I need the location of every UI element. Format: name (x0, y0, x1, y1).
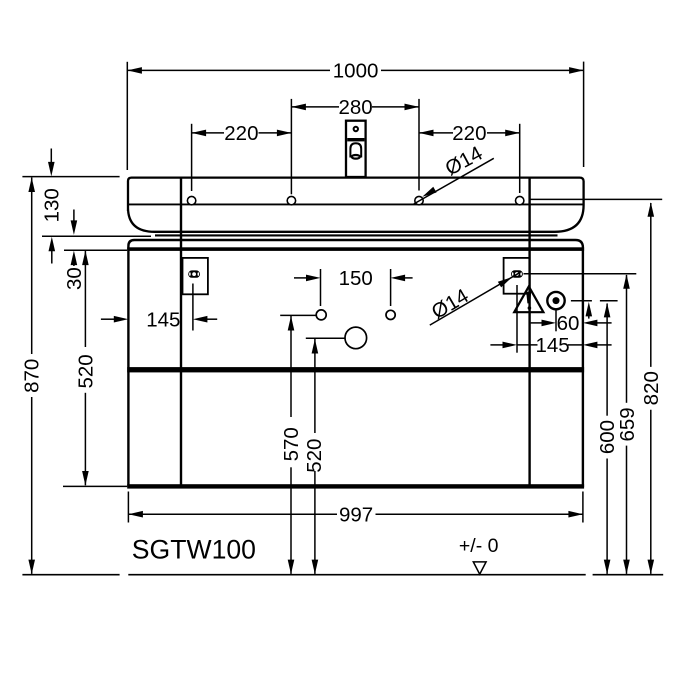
dim 870 arrowheads (28, 178, 35, 193)
dim 220 right extension line (519, 124, 521, 193)
svg-text:+/- 0: +/- 0 (459, 535, 499, 557)
dim 60 arrowheads (542, 320, 557, 327)
svg-text:997: 997 (339, 504, 373, 527)
dim 150 extension line right (390, 269, 392, 306)
basin top extension line left (22, 176, 119, 178)
dim 145 right arrowheads (503, 342, 518, 349)
dim 30 bottom arrowhead (71, 251, 78, 266)
svg-text:820: 820 (640, 371, 663, 405)
dim 130 top arrowhead (48, 162, 55, 177)
svg-text:145: 145 (535, 334, 569, 357)
faucet body (346, 121, 366, 177)
dim 220 left arrows (192, 130, 207, 137)
washbasin bottom thick rim line (155, 234, 558, 236)
warning triangle exclamation bar (526, 292, 531, 304)
dim 1000 line (127, 69, 330, 71)
right hinge plate (504, 258, 530, 294)
dim 820 line (650, 203, 652, 367)
dim 570 arrowheads (288, 316, 295, 331)
cabinet bottom thick band (127, 484, 584, 488)
dim 520 center arrowheads (312, 339, 319, 354)
dim 997 arrowheads (128, 511, 143, 518)
faucet spout outlet ellipse (352, 155, 360, 159)
dim 280 line (291, 106, 339, 108)
basin hole 2 (287, 196, 295, 204)
cabinet bottom extension line left (63, 485, 127, 487)
dim 870 line (31, 178, 33, 355)
cabinet right inner panel line (528, 178, 530, 487)
faucet spout arch (350, 143, 361, 157)
svg-text:60: 60 (557, 312, 580, 335)
svg-text:520: 520 (303, 439, 326, 473)
dim 30 top arrow stem (73, 210, 75, 223)
drawer divider thick band (127, 367, 584, 372)
dim 997 extension line right (582, 492, 584, 523)
dim 60 tails (531, 322, 542, 324)
dim 220 right arrows (419, 130, 434, 137)
dim 820 arrowheads (648, 202, 655, 217)
faucet top dot (354, 127, 358, 131)
basin hole 4 (516, 196, 524, 204)
dim 600 line (606, 304, 608, 416)
dim 570 line (290, 316, 292, 417)
cabinet left inner panel line (180, 178, 182, 487)
right hinge slot symbol (511, 270, 523, 277)
handle extension line segments (571, 300, 592, 302)
cabinet top extension line left (64, 249, 127, 251)
left hinge extension line down (192, 284, 194, 331)
svg-text:30: 30 (63, 267, 86, 290)
dim 520 center line (314, 339, 316, 433)
datum triangle +/- 0 (473, 562, 486, 574)
drawer hole right (386, 310, 395, 319)
washbasin deck front edge line (129, 203, 583, 205)
right hinge extension line down (516, 285, 518, 353)
dim 1000 left arrow (127, 67, 141, 74)
svg-text:150: 150 (339, 267, 373, 290)
dim 150 tails (294, 277, 307, 279)
left hinge plate (183, 258, 208, 294)
dim 130 bottom arrow stem (51, 248, 53, 264)
dim 659 arrowheads (623, 274, 630, 289)
svg-text:220: 220 (452, 122, 486, 145)
svg-text:520: 520 (75, 354, 98, 388)
dim 520 left arrowheads (82, 251, 89, 266)
dim 1000 extension line left (126, 62, 128, 170)
dim 280 right arrow (405, 104, 420, 111)
dim 1000 right arrow (569, 67, 584, 74)
dim 145 right tails (490, 344, 503, 346)
short up arrow stem at handle line (588, 313, 590, 319)
svg-text:1000: 1000 (333, 60, 379, 83)
svg-text:130: 130 (41, 188, 64, 222)
dim 280 left arrow (291, 104, 306, 111)
dim 600 arrowheads (604, 303, 611, 318)
dim 220 left line (192, 132, 224, 134)
dim 30 bottom arrow stem (73, 262, 75, 266)
dim 145 right line (517, 344, 538, 346)
handle stem extension (555, 309, 557, 331)
svg-text:659: 659 (616, 407, 639, 441)
dim 130 top arrow stem (50, 149, 52, 165)
faucet divider band (347, 138, 364, 141)
warning triangle exclamation dot (528, 306, 532, 310)
basin hole 1 (187, 196, 195, 204)
svg-text:870: 870 (20, 359, 43, 393)
dim 145 left tails (101, 318, 114, 320)
leader Ø14 top arrowhead (421, 187, 437, 200)
dim 820 extension line (529, 198, 662, 200)
warning triangle (514, 286, 543, 312)
dim 1000 extension line right (583, 62, 585, 167)
dim 150 extension line left (320, 269, 322, 306)
drawer large hole (345, 327, 367, 349)
floor line left segment (22, 574, 119, 576)
leader Ø14 bottom (430, 272, 521, 325)
cabinet outline (128, 240, 583, 487)
short up arrowhead at handle line (586, 302, 593, 317)
basin hole 3 (pointed by Ø14) (415, 196, 423, 204)
dim 520 left line (84, 251, 86, 347)
dim 659 line (626, 275, 628, 403)
dim 570 leader (280, 314, 316, 316)
svg-text:Ø14: Ø14 (428, 284, 473, 323)
dim 997 line (128, 513, 337, 515)
svg-text:145: 145 (146, 309, 180, 332)
cabinet top thick band (127, 247, 584, 251)
right hinge extension line (524, 273, 637, 275)
svg-text:570: 570 (280, 427, 303, 461)
dim 145 left arrowheads (114, 316, 129, 323)
basin bottom extension line left (42, 235, 151, 237)
svg-text:220: 220 (224, 122, 258, 145)
drawer hole left (316, 310, 326, 320)
dim 997 extension line left (127, 492, 129, 523)
floor line right segment (593, 574, 664, 576)
leader Ø14 top (414, 158, 494, 204)
left hinge slot symbol (188, 270, 200, 277)
dim 220 left extension line (191, 124, 193, 191)
leader Ø14 bottom arrowhead (498, 274, 514, 287)
svg-text:280: 280 (338, 96, 372, 119)
dim 280 extension line right (418, 99, 420, 191)
dim 30 top arrowhead (71, 220, 78, 235)
svg-text:SGTW100: SGTW100 (132, 534, 256, 564)
washbasin outline (128, 178, 584, 232)
dim 280 extension line left (290, 99, 292, 194)
floor line middle segment (128, 574, 585, 576)
handle target symbol (547, 292, 564, 309)
dim 130 bottom arrowhead (49, 237, 56, 252)
dim 220 right line (419, 132, 453, 134)
dim 150 arrowheads (306, 275, 321, 282)
dim 520 center leader (306, 337, 345, 339)
